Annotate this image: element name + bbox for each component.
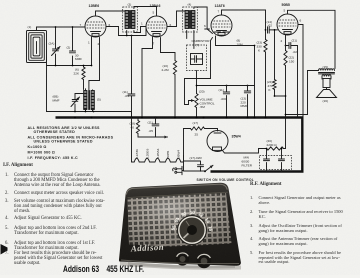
wire V4 plate to output transformer bbox=[288, 10, 336, 68]
resistor (23) 330K grid leak bbox=[257, 30, 268, 117]
wire V1 plate to T1 bbox=[96, 11, 125, 16]
wire carbistor to volume control bbox=[196, 71, 198, 94]
filament string 12AT6 12BE6 12BA6 50B5 35W4 bbox=[132, 148, 184, 162]
wire V2 grid resistor (10) bbox=[161, 38, 176, 61]
svg-text:Addison: Addison bbox=[130, 242, 165, 254]
wire V2 cathode resistor drop bbox=[142, 37, 153, 117]
ground arrow bbox=[156, 136, 168, 138]
wire grid return bbox=[47, 65, 92, 67]
wire antenna bottom lead bbox=[46, 58, 48, 112]
wire T2 secondary top to diode bbox=[194, 7, 213, 34]
capacitor (17) .02 line bbox=[184, 156, 204, 171]
wire B- right drop (thick) bbox=[301, 117, 303, 173]
tube V1 12BE6 converter bbox=[80, 4, 111, 46]
dial bbox=[177, 215, 207, 245]
resistor (18) 150 bbox=[130, 118, 156, 138]
IF transformer T2 (4) bbox=[183, 3, 198, 33]
wire B- bottom (thick) bbox=[211, 170, 304, 172]
wire filament to line bbox=[183, 129, 185, 163]
wire V3 plate bbox=[222, 10, 266, 30]
oscillator coil (5) bbox=[84, 89, 101, 112]
resistor (17) surge bbox=[184, 121, 218, 137]
loop antenna (1) bbox=[27, 25, 47, 63]
trimmer capacitor (2A) bbox=[49, 27, 61, 66]
wire V4 cathode bbox=[285, 35, 287, 43]
resistor (10) 2.2M bbox=[162, 61, 177, 118]
wire osc grid top bbox=[75, 93, 86, 95]
capacitor (11) .05 bbox=[123, 90, 135, 100]
wire V5 cathode to filter bbox=[223, 149, 267, 154]
tuning capacitor (2) 30 MMF bbox=[67, 27, 83, 66]
wire left bus tail bbox=[46, 111, 48, 113]
capacitor (14) .02 coupling bbox=[267, 20, 278, 33]
wire T1 secondary to V2 grid bbox=[134, 7, 157, 17]
capacitor (13) 220 MMF bbox=[241, 86, 251, 118]
tube V2 12BA6 IF amplifier bbox=[141, 4, 172, 46]
wire transformer left to B+ bbox=[286, 71, 319, 115]
tube V4 50B5 output bbox=[277, 3, 302, 43]
wire V3 grid from volume control bbox=[185, 38, 213, 105]
potentiometer (20) volume control .5M bbox=[189, 90, 215, 118]
IF transformer T1 (3) bbox=[123, 3, 138, 33]
tube V3 12AT6 detector bbox=[211, 4, 232, 36]
trimmer capacitor (6B) bbox=[53, 94, 80, 112]
resistor (6) 22K bbox=[74, 66, 86, 90]
wire V4 screen to B+ bbox=[298, 25, 303, 118]
svg-text:10: 10 bbox=[190, 210, 196, 215]
capacitor (11) .001 bbox=[219, 86, 230, 118]
capacitor (21) .02 bbox=[286, 39, 298, 118]
wire V1 cathode bbox=[91, 37, 93, 66]
wire V1 screen bbox=[106, 27, 119, 36]
AC plug bbox=[173, 166, 184, 174]
wire T2 primary return bbox=[186, 31, 188, 39]
speaker (16) bbox=[317, 75, 337, 103]
tube V5 35W4 rectifier bbox=[207, 131, 241, 152]
wire diode line bbox=[216, 36, 255, 86]
output transformer (15) bbox=[319, 65, 335, 74]
wire T2 secondary to carbistor bbox=[193, 31, 195, 49]
switch on volume control bbox=[184, 165, 255, 182]
resistor (20) 2200 filter bbox=[267, 139, 286, 150]
carbistor (7) bbox=[187, 39, 211, 71]
wire detector load line bbox=[197, 85, 255, 87]
notes bbox=[28, 126, 114, 160]
resistor (22) 150 bbox=[284, 43, 295, 149]
wire screen bypass drop bbox=[131, 36, 133, 118]
wire oscillator return bbox=[47, 112, 132, 118]
wire V2 plate bbox=[167, 11, 185, 27]
filter capacitors (18)(19) 50/30 bbox=[242, 148, 292, 172]
wire filament feed bbox=[131, 118, 133, 163]
wire screen line bbox=[119, 27, 147, 36]
wire antenna top lead bbox=[37, 27, 86, 31]
capacitor (11) .05 bypass bbox=[148, 118, 159, 138]
wire V1 osc grid bbox=[89, 38, 100, 91]
wire B- bus (thick) bbox=[56, 116, 304, 118]
knobs bbox=[176, 252, 189, 265]
resistor (24) 470K bbox=[267, 30, 286, 96]
page mark bbox=[1, 244, 8, 255]
wire T1 primary return bbox=[126, 31, 128, 36]
